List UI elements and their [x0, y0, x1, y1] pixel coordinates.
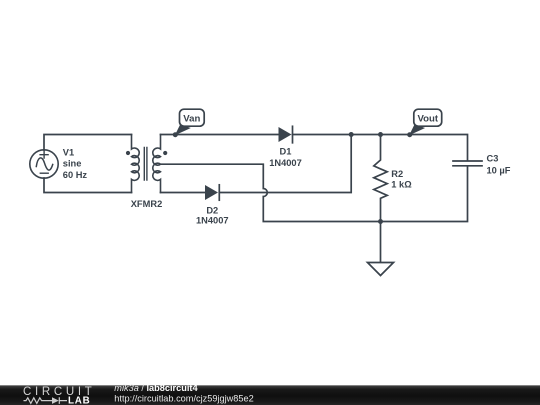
svg-text:1 kΩ: 1 kΩ [391, 180, 412, 190]
svg-text:mik3a / lab8circuit4: mik3a / lab8circuit4 [114, 383, 198, 393]
label C3 [487, 154, 511, 176]
svg-text:http://circuitlab.com/cjz59jgj: http://circuitlab.com/cjz59jgjw85e2 [114, 393, 253, 403]
CircuitLab logo schematic glyph (resistor + diode) [24, 397, 68, 404]
svg-text:Vout: Vout [417, 114, 438, 125]
label D1 [269, 147, 302, 168]
primary winding [132, 135, 140, 193]
secondary winding [153, 135, 161, 193]
svg-text:LAB: LAB [68, 395, 91, 405]
wire: D2 cathode up to output node [219, 135, 351, 193]
svg-text:XFMR2: XFMR2 [131, 199, 163, 209]
secondary phase dot [163, 151, 167, 155]
svg-text:D1: D1 [280, 147, 292, 157]
junction node: D2 riser on top rail [349, 132, 354, 137]
net flag Van [173, 109, 204, 137]
wire: V1 top loop to transformer primary [44, 135, 132, 151]
svg-text:Van: Van [183, 114, 200, 125]
wire: D1 cathode to C3 top lead [293, 135, 468, 161]
wire: V1 bottom loop to transformer primary [44, 178, 132, 193]
diode D2 [205, 185, 219, 200]
diode D1 [279, 126, 293, 143]
capacitor C3 [453, 161, 482, 166]
transformer XFMR2 [126, 135, 167, 193]
footer bar [0, 385, 540, 405]
label V1 value [63, 148, 88, 180]
svg-text:1N4007: 1N4007 [269, 158, 302, 168]
wire: center tap with hop over D2 wire, to bottom rail and C3 bottom lead [161, 164, 468, 221]
primary phase dot [126, 151, 130, 155]
ground [368, 222, 394, 276]
wire: secondary bottom to D2 anode [161, 192, 206, 194]
junction node: ground on bottom rail [378, 219, 383, 224]
label R2 [391, 169, 412, 190]
svg-text:D2: D2 [206, 206, 218, 216]
voltage source V1 [30, 150, 58, 178]
svg-text:R2: R2 [391, 169, 403, 179]
junction node: R2 top on top rail [378, 132, 383, 137]
core [144, 148, 147, 181]
svg-text:1N4007: 1N4007 [196, 215, 229, 225]
svg-text:10 µF: 10 µF [487, 166, 511, 176]
svg-text:C3: C3 [487, 154, 499, 164]
svg-text:V1: V1 [63, 148, 74, 158]
wire: secondary top to D1 anode [161, 134, 279, 136]
svg-text:60 Hz: 60 Hz [63, 170, 88, 180]
resistor R2 [374, 135, 387, 222]
label D2 [196, 206, 229, 226]
svg-text:sine: sine [63, 159, 82, 169]
net flag Vout [407, 109, 441, 137]
